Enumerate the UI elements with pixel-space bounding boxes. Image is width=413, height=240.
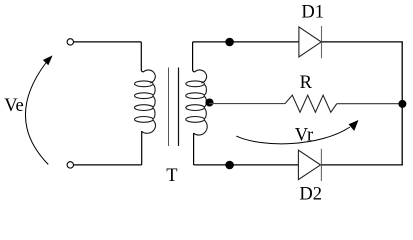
wire right rail vertical [401,42,403,165]
wire primary top lead [141,42,143,72]
wire center tap to resistor [209,103,285,105]
diode D2 [298,149,321,181]
wire top-left horizontal [74,41,142,43]
transformer core [168,68,170,147]
wire secondary bottom to D2 [194,164,299,166]
node top junction [225,38,234,47]
svg-text:D2: D2 [299,185,322,202]
arrow Ve [25,63,48,165]
inductor primary winding [135,70,156,133]
svg-text:D1: D1 [301,3,324,23]
wire bottom-left horizontal [74,164,142,166]
inductor secondary winding [186,70,207,135]
wire secondary top lead [193,42,195,72]
wire D2 to right rail [321,164,402,166]
node output junction [398,100,406,108]
wire D1 to right rail [322,41,403,43]
terminal circle top-left [67,39,73,45]
node center tap [205,98,213,106]
diode D1 [299,26,322,58]
arrow Vr [236,127,350,144]
svg-text:R: R [300,73,313,93]
svg-text:T: T [166,166,177,186]
resistor R [285,95,337,112]
wire primary bottom lead [141,131,143,165]
svg-text:Ve: Ve [4,96,24,116]
wire secondary top to D1 [193,41,299,43]
terminal circle bottom-left [67,162,73,168]
wire resistor to right rail [337,103,402,105]
wire secondary bottom lead [193,133,195,165]
node bottom junction [225,161,234,170]
